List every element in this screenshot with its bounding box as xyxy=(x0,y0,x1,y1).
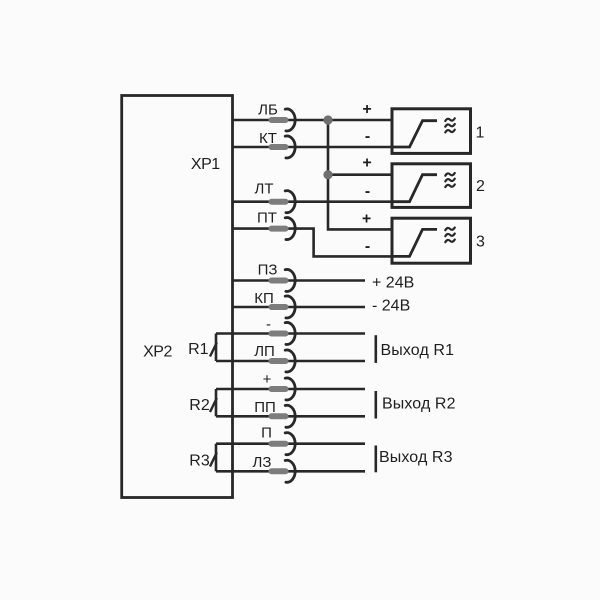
pin "+" contact bar xyxy=(269,386,289,392)
pin П contact bar xyxy=(269,441,289,447)
pin ЛБ contact bar xyxy=(269,117,289,123)
pin ПЗ socket arc xyxy=(285,269,295,291)
wire ЛБ to device 1 plus xyxy=(233,119,393,122)
output R2 terminal bar xyxy=(375,391,378,419)
relay R3 contact bracket xyxy=(215,444,218,472)
output R3 terminal bar xyxy=(375,446,378,473)
pin КТ contact bar xyxy=(269,144,289,150)
pin КП socket arc xyxy=(285,296,295,318)
wire КП to -24V xyxy=(233,306,366,309)
pin "-" socket arc xyxy=(285,322,295,344)
relay R3 contact stroke xyxy=(210,453,217,467)
svg-text:-: - xyxy=(365,183,370,200)
svg-text:-: - xyxy=(266,316,271,333)
wire ПП pin of R2 output xyxy=(216,415,365,418)
node B junction dot xyxy=(323,170,332,179)
pin ЛП contact bar xyxy=(269,358,289,364)
svg-text:ЛТ: ЛТ xyxy=(254,181,273,198)
pin ЛП socket arc xyxy=(285,350,295,372)
pin ЛТ contact bar xyxy=(269,199,289,205)
svg-text:3: 3 xyxy=(476,234,485,251)
relay R2 contact bracket xyxy=(215,389,218,416)
wire КТ to device 1 minus xyxy=(233,146,393,149)
pin ЛЗ socket arc xyxy=(285,460,295,482)
svg-text:1: 1 xyxy=(476,124,485,141)
device box 1 xyxy=(392,109,471,154)
svg-text:- 24В: - 24В xyxy=(372,298,410,315)
pin ПТ contact bar xyxy=(269,226,289,232)
svg-text:+: + xyxy=(362,210,371,227)
relay R2 contact stroke xyxy=(210,398,217,412)
pin ЛТ socket arc xyxy=(285,191,295,213)
device box 3 xyxy=(392,218,471,263)
svg-text:КП: КП xyxy=(254,290,274,307)
svg-text:ПТ: ПТ xyxy=(257,210,277,227)
svg-text:П: П xyxy=(261,425,272,442)
svg-text:Выход R3: Выход R3 xyxy=(379,449,453,466)
pin "-" contact bar xyxy=(269,331,289,337)
svg-text:Выход R1: Выход R1 xyxy=(381,342,455,359)
svg-text:ПП: ПП xyxy=(254,399,276,416)
connector block XP1/XP2 xyxy=(122,96,233,498)
pin П socket arc xyxy=(285,433,295,455)
svg-text:R1: R1 xyxy=(188,341,209,358)
wire ПЗ to +24V xyxy=(233,279,366,282)
relay R1 contact bracket xyxy=(215,334,218,362)
svg-text:+ 24В: + 24В xyxy=(372,275,414,292)
svg-text:КТ: КТ xyxy=(259,130,277,147)
wire branch node B to device 2 plus xyxy=(328,173,392,176)
svg-text:+: + xyxy=(263,371,272,388)
wire bus from node A down to device 3 plus xyxy=(328,120,392,229)
svg-text:R3: R3 xyxy=(189,452,210,469)
svg-text:+: + xyxy=(362,101,371,118)
svg-text:ПЗ: ПЗ xyxy=(258,262,278,279)
pin ЛБ socket arc xyxy=(285,109,295,131)
svg-text:ЛБ: ЛБ xyxy=(258,102,278,119)
pin ПЗ contact bar xyxy=(269,278,289,284)
pin КТ socket arc xyxy=(285,136,295,158)
relay R1 contact stroke xyxy=(210,343,217,357)
wire ЛТ to device 2 minus xyxy=(233,200,393,203)
svg-text:+: + xyxy=(362,154,371,171)
svg-text:Выход R2: Выход R2 xyxy=(382,396,456,413)
pin ПП contact bar xyxy=(269,413,289,419)
wire ЛЗ pin of R3 output xyxy=(216,470,365,473)
node A junction dot xyxy=(323,115,332,124)
wire П pin of R3 output xyxy=(216,442,365,445)
svg-text:ЛЗ: ЛЗ xyxy=(253,454,272,471)
pin "+" socket arc xyxy=(285,378,295,400)
svg-text:-: - xyxy=(365,128,370,145)
svg-text:-: - xyxy=(365,238,370,255)
svg-text:R2: R2 xyxy=(189,397,210,414)
pin КП contact bar xyxy=(269,304,289,310)
pin ЛЗ contact bar xyxy=(269,468,289,474)
svg-text:ХР2: ХР2 xyxy=(143,343,172,360)
output R1 terminal bar xyxy=(375,335,378,363)
wire plus pin of R2 output xyxy=(216,388,365,391)
svg-text:2: 2 xyxy=(476,178,485,195)
wire ЛП pin of R1 output xyxy=(216,360,365,363)
svg-text:ЛП: ЛП xyxy=(254,343,275,360)
svg-text:ХР1: ХР1 xyxy=(191,156,220,173)
wire ПТ to device 3 minus (stepped route) xyxy=(233,229,393,257)
wire minus pin of R1 output xyxy=(216,332,365,335)
pin ПТ socket arc xyxy=(285,218,295,240)
device box 2 xyxy=(392,164,471,208)
pin ПП socket arc xyxy=(285,405,295,427)
